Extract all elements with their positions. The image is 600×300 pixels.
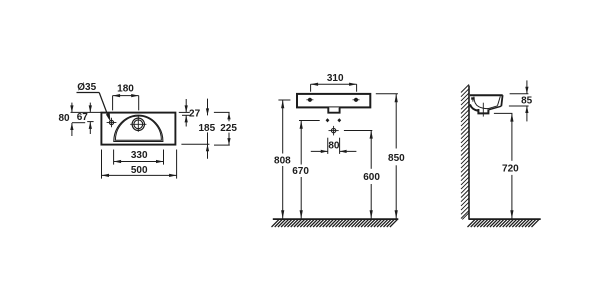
basin outer contour (114, 115, 163, 141)
basin inner contour (115, 116, 161, 140)
drain box (side view) (478, 109, 488, 113)
dimension 720 (side view) (494, 113, 519, 218)
sink profile right edge (501, 95, 502, 106)
svg-text:850: 850 (388, 153, 405, 164)
svg-text:600: 600 (363, 172, 380, 183)
dimension 500 (bottom of top view) (102, 150, 177, 179)
sink profile top edge (side view) (470, 94, 503, 96)
svg-text:670: 670 (292, 166, 309, 177)
right fixing diamond (337, 118, 341, 122)
dimension 670 (front view left) (292, 121, 319, 219)
drain center line (side view) (482, 103, 484, 117)
dimension 80 (top view left) (58, 103, 101, 136)
sink body outline (front view) (297, 94, 370, 108)
wall hatching (461, 85, 469, 220)
floor line (side view) (469, 218, 541, 220)
siphon outlet mark (front view) (329, 126, 339, 135)
dimension 180 (top) (113, 84, 139, 111)
svg-text:808: 808 (274, 155, 291, 166)
left mounting hole (306, 98, 313, 101)
mounting bolt (side view) (471, 97, 474, 101)
svg-text:80: 80 (58, 113, 70, 124)
svg-text:500: 500 (131, 165, 148, 176)
label D35 with leader (77, 82, 111, 122)
dimension 85 (side view) (509, 80, 533, 121)
dimension 80 (front view) (311, 138, 357, 154)
dimension 600 (front view right inner) (344, 130, 380, 218)
sink underside outer (489, 106, 501, 110)
right mounting hole (353, 98, 360, 101)
dimension 330 (bottom of top view) (114, 150, 164, 165)
sink body outline (top view) (101, 113, 175, 145)
wall face line (468, 86, 470, 220)
svg-text:85: 85 (521, 96, 533, 107)
floor line (front view) (273, 218, 399, 220)
svg-text:185: 185 (198, 123, 215, 134)
basin bowl inner curve (side view) (474, 97, 490, 109)
dimension 27 (top view right) (179, 99, 201, 127)
left fixing diamond (326, 118, 330, 122)
svg-text:80: 80 (328, 141, 340, 152)
svg-text:27: 27 (189, 108, 201, 119)
floor hatching (front view) (272, 220, 398, 227)
svg-text:310: 310 (327, 73, 344, 84)
svg-text:180: 180 (117, 84, 134, 95)
dimension 225 (top view right) (214, 112, 237, 145)
drain outlet trapezoid (front view) (328, 107, 339, 112)
floor hatching (side view) (468, 220, 539, 227)
svg-text:720: 720 (502, 164, 519, 175)
svg-text:Ø35: Ø35 (77, 82, 96, 93)
drain s-curve to wall (side view) (470, 104, 478, 110)
dimension 850 (front view far right) (376, 94, 405, 219)
svg-text:225: 225 (220, 123, 237, 134)
sink inner front surface (498, 96, 501, 105)
dimension 310 (front top) (311, 73, 357, 92)
tap hole (107, 118, 117, 128)
sink underside inner (489, 106, 497, 109)
svg-text:330: 330 (131, 150, 148, 161)
dimension 808 (front view far left) (274, 100, 291, 219)
dimension 67 (top view left) (77, 103, 94, 134)
svg-text:67: 67 (77, 112, 89, 123)
dimension 185 (top view right) (181, 99, 215, 159)
drain (top view) (130, 116, 146, 132)
